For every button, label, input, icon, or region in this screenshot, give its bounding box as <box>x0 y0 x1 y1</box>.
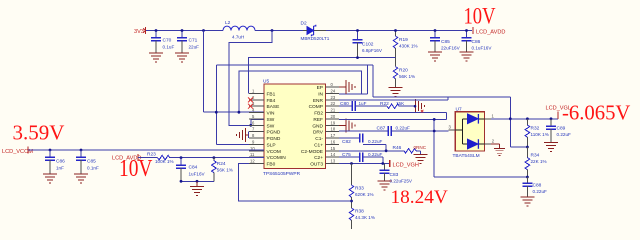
svg-text:SW: SW <box>267 117 275 123</box>
ground right of R22 <box>416 99 425 113</box>
U5 left pin numbers <box>250 89 255 164</box>
svg-text:U7: U7 <box>456 107 462 113</box>
wire C1- pin 17 <box>339 137 360 139</box>
wire OUT3 pin 13 <box>339 163 390 165</box>
port LCD_VGL <box>546 106 572 119</box>
capacitor C80 <box>340 101 367 111</box>
capacitor C82 <box>342 133 382 145</box>
svg-text:C83: C83 <box>390 172 399 178</box>
junction dots on 3V3 rail <box>155 29 468 32</box>
svg-text:0.22uF: 0.22uF <box>368 152 382 157</box>
svg-text:C86: C86 <box>472 39 481 45</box>
wire 3V3 rail right segment to LCD_AVDD <box>326 30 472 32</box>
svg-text:BASE: BASE <box>267 104 280 110</box>
dot R34 bottom / C88 <box>526 176 529 179</box>
svg-text:22uF: 22uF <box>189 45 200 50</box>
dot R32 top <box>526 117 529 120</box>
resistor R34 <box>525 147 546 177</box>
svg-text:SLP: SLP <box>267 142 276 148</box>
wire VCOMIN pin 11 left <box>138 157 158 159</box>
capacitor C85 <box>430 31 461 53</box>
U7 pin stubs and numbers <box>448 113 495 144</box>
svg-text:3V3: 3V3 <box>134 29 144 35</box>
svg-text:U5: U5 <box>263 79 269 85</box>
svg-text:DRV: DRV <box>313 130 324 136</box>
wire R46 to ground <box>416 151 420 155</box>
svg-text:C1+: C1+ <box>314 142 323 148</box>
svg-text:17: 17 <box>331 133 336 138</box>
svg-text:56K 1%: 56K 1% <box>399 74 415 79</box>
wire COMP to R22 <box>355 105 387 107</box>
resistor R32 <box>525 119 549 147</box>
ground under C85 (VCOM) <box>74 174 88 183</box>
svg-text:15K: 15K <box>396 101 405 106</box>
svg-text:PGND: PGND <box>267 130 281 136</box>
diode D2 MBRD520LT1 <box>301 21 330 42</box>
svg-text:44.3K 1%: 44.3K 1% <box>355 215 375 220</box>
svg-text:0.22uF: 0.22uF <box>396 126 410 131</box>
svg-text:C80: C80 <box>340 101 349 107</box>
capacitor C75 <box>342 152 382 162</box>
dot ground tap on bottom link <box>196 180 199 183</box>
dot at R46 tap <box>385 149 388 152</box>
resistor R33 <box>349 164 373 202</box>
svg-text:22K 1%: 22K 1% <box>531 159 547 164</box>
svg-text:TBAT54SLM: TBAT54SLM <box>453 153 480 159</box>
svg-text:VCOMIN: VCOMIN <box>267 155 287 161</box>
wire VCOM pin 10 <box>28 149 264 151</box>
svg-text:6.8pF16V: 6.8pF16V <box>362 48 383 53</box>
svg-text:1nF: 1nF <box>56 166 64 171</box>
svg-text:14: 14 <box>331 152 336 157</box>
wire C2+ pin 14 <box>339 156 360 158</box>
svg-text:C70: C70 <box>163 38 172 44</box>
resistor R46 <box>393 145 427 153</box>
dot C84 top <box>180 156 183 159</box>
svg-text:0.1uF16V: 0.1uF16V <box>472 46 493 51</box>
ground under C71 <box>175 53 189 62</box>
svg-text:R24: R24 <box>217 161 226 167</box>
svg-text:C1-: C1- <box>315 136 323 142</box>
wire C75 to OUT3 <box>363 157 383 163</box>
svg-text:FB4: FB4 <box>267 98 276 104</box>
dot OUT3/C83 <box>381 162 384 165</box>
svg-text:C84: C84 <box>189 165 198 171</box>
capacitor C84 <box>176 158 206 182</box>
svg-text:FB2: FB2 <box>314 111 323 117</box>
wire 3V3 rail left segment <box>146 30 223 32</box>
diode U7-B (bottom) <box>468 139 479 149</box>
svg-text:C89: C89 <box>557 126 566 132</box>
svg-text:1uF16V: 1uF16V <box>189 172 206 177</box>
ground under C83 <box>378 181 392 190</box>
wire C1+ pin 16 loop <box>363 144 386 150</box>
svg-text:IN: IN <box>318 92 323 98</box>
svg-text:0.1nF: 0.1nF <box>87 166 99 171</box>
capacitor C86 <box>462 31 493 53</box>
svg-text:16: 16 <box>331 139 336 144</box>
svg-text:COMP: COMP <box>309 104 323 110</box>
wire DRV pin 18 to C87 <box>339 130 388 132</box>
svg-text:0.22uF: 0.22uF <box>533 189 547 194</box>
wire REF pin 20 <box>339 118 446 120</box>
wire riser from top link down to divider <box>510 97 527 147</box>
svg-text:430K 1%: 430K 1% <box>399 44 418 49</box>
junction dots on VIN wire <box>215 56 359 127</box>
capacitor C87 <box>377 126 410 136</box>
wire VIN/SLP rail <box>216 65 373 144</box>
wire U7 pin1 / VGL sense <box>491 118 558 120</box>
svg-text:20: 20 <box>331 114 336 119</box>
svg-text:LCD_AVDD: LCD_AVDD <box>476 30 505 36</box>
port LCD_VCOM <box>2 146 33 155</box>
dot R32/R34 junction <box>526 146 529 149</box>
wire COMP pin 22 <box>339 105 352 107</box>
svg-text:R32: R32 <box>531 126 540 132</box>
port LCD_AVDD (top) <box>473 27 505 36</box>
svg-text:C2-MODE: C2-MODE <box>301 149 323 155</box>
svg-text:0.22uF: 0.22uF <box>368 139 382 144</box>
no-connect X on pin 2 <box>248 97 253 102</box>
svg-text:R38: R38 <box>355 209 364 215</box>
svg-text:GND: GND <box>312 123 323 129</box>
wire FB2 top link <box>373 65 510 97</box>
svg-text:110K 1%: 110K 1% <box>531 132 549 137</box>
svg-text:0.22uF: 0.22uF <box>557 132 571 137</box>
wire C2-MODE pin 15 <box>339 150 404 152</box>
wire FB0 pin 12 loop <box>239 164 352 202</box>
wire 3V3 riser to VIN <box>203 31 205 113</box>
ground at GND pin 19 (right) <box>339 118 355 132</box>
dot R33/R38 junction <box>350 200 353 203</box>
wire charge-pump riser to VGL rail <box>434 119 527 177</box>
ground under C85 <box>428 52 442 61</box>
svg-text:10V: 10V <box>464 3 496 30</box>
capacitor C85 (VCOM) <box>76 150 99 174</box>
capacitor C102 <box>353 31 383 58</box>
svg-text:ENR: ENR <box>313 98 324 104</box>
resistor R20 <box>393 58 415 88</box>
dot R24 top <box>213 156 216 159</box>
ground at EP pin (right) <box>339 80 355 94</box>
ground at U7 pin 2 <box>491 144 505 156</box>
ground under R20 <box>389 88 403 97</box>
svg-text:D2: D2 <box>301 21 307 27</box>
ground under C89 <box>544 143 558 152</box>
svg-text:VIN: VIN <box>267 111 276 117</box>
dot C86b <box>49 149 52 152</box>
svg-text:REF: REF <box>313 117 323 123</box>
svg-text:C71: C71 <box>189 38 198 44</box>
svg-text:R46: R46 <box>393 145 402 151</box>
svg-text:24: 24 <box>331 89 336 94</box>
ground under R46 <box>414 155 428 164</box>
ground under C88 <box>520 197 534 206</box>
wire R22 to ground <box>399 105 415 107</box>
svg-text:C87: C87 <box>377 126 386 132</box>
dot C89 top <box>550 117 553 120</box>
svg-text:56K 1%: 56K 1% <box>217 168 233 173</box>
ground under bottom link <box>190 181 204 195</box>
svg-text:SW: SW <box>267 123 275 129</box>
svg-text:R20: R20 <box>399 68 408 74</box>
svg-text:15: 15 <box>331 146 336 151</box>
svg-text:100K 1%: 100K 1% <box>155 159 174 164</box>
svg-text:TPS65105PWPR: TPS65105PWPR <box>263 171 301 177</box>
svg-text:C75: C75 <box>342 152 351 158</box>
capacitor C88 <box>522 177 547 197</box>
svg-text:R33: R33 <box>355 186 364 192</box>
capacitor C83 <box>380 164 413 184</box>
dot C85b <box>80 149 83 152</box>
U5 left pin stubs 1-12 <box>249 94 264 164</box>
dot riser crossing pin1 wire <box>509 117 512 120</box>
svg-text:21: 21 <box>331 108 336 113</box>
capacitor C86 (VCOM) <box>45 150 65 174</box>
svg-text:C102: C102 <box>362 42 374 48</box>
U5 right pin numbers <box>331 82 336 163</box>
svg-text:MBRD520LT1: MBRD520LT1 <box>301 36 330 41</box>
svg-text:R22: R22 <box>380 101 389 107</box>
dot OUT3/R33 <box>350 162 353 165</box>
port LCD_AVDD (bottom) <box>112 154 141 162</box>
wire C87 to U7 pin 3 <box>392 130 449 132</box>
svg-text:0.22uF25V: 0.22uF25V <box>390 179 413 184</box>
svg-text:L2: L2 <box>225 20 231 26</box>
svg-text:OUT3: OUT3 <box>310 162 323 168</box>
svg-text:0RNC: 0RNC <box>414 145 427 150</box>
svg-text:C86: C86 <box>56 159 65 165</box>
svg-text:C88: C88 <box>533 183 542 189</box>
svg-text:19: 19 <box>331 120 336 125</box>
svg-text:PGND: PGND <box>267 136 281 142</box>
wire IN rail <box>239 65 368 112</box>
wire FB2 pin 21 <box>339 113 446 120</box>
wire SW net: drop from rail, across, down to SW pins <box>229 31 272 126</box>
diode U7-A (top) <box>468 114 479 124</box>
ground under C86 <box>460 52 474 61</box>
svg-text:C82: C82 <box>342 139 351 145</box>
dot at R22 ground node <box>414 105 417 108</box>
wire 3V3 rail mid segment <box>255 30 307 32</box>
svg-text:C85: C85 <box>441 39 450 45</box>
transistor U7 TBAT54SLM body <box>453 107 485 160</box>
port 3V3 <box>134 27 146 35</box>
svg-text:C2+: C2+ <box>314 155 323 161</box>
svg-text:10V: 10V <box>119 154 153 182</box>
svg-text:VCOM: VCOM <box>267 149 281 155</box>
resistor R24 <box>212 158 233 182</box>
wire VIN pin wire <box>204 111 265 113</box>
svg-text:FB1: FB1 <box>267 92 276 98</box>
svg-text:11: 11 <box>250 152 255 157</box>
ground under C86 (VCOM) <box>43 174 57 183</box>
dot DRV riser top on REF wire <box>433 118 436 121</box>
svg-text:0.1uF: 0.1uF <box>163 45 175 50</box>
svg-text:22: 22 <box>331 101 336 106</box>
svg-text:3.59V: 3.59V <box>13 121 65 145</box>
resistor R23 <box>147 152 174 164</box>
svg-text:12: 12 <box>250 159 255 164</box>
svg-text:13: 13 <box>331 159 336 164</box>
capacitor C70 <box>151 31 174 54</box>
dot C84 bottom <box>180 180 183 183</box>
wire VCOMIN pin 11 right <box>170 157 264 159</box>
capacitor C71 <box>177 31 199 54</box>
svg-text:620K 1%: 620K 1% <box>355 192 374 197</box>
svg-text:23: 23 <box>331 95 336 100</box>
U5 right pin names <box>301 85 324 167</box>
wire ENR pin 23 <box>339 97 448 100</box>
svg-text:18.24V: 18.24V <box>391 187 448 208</box>
capacitor C89 <box>546 119 571 143</box>
svg-text:4.7uH: 4.7uH <box>232 35 244 40</box>
op-amp U5 body <box>263 79 326 178</box>
ground under C70 <box>149 53 163 62</box>
inductor L2 <box>223 20 255 40</box>
U5 left pin names <box>267 92 287 168</box>
svg-text:R34: R34 <box>531 153 540 159</box>
svg-text:C85: C85 <box>87 159 96 165</box>
svg-text:LCD_VGH: LCD_VGH <box>393 163 419 169</box>
resistor R22 <box>380 101 405 109</box>
wire C84/R24 bottom link <box>181 180 214 182</box>
resistor R19 <box>393 31 417 58</box>
svg-text:1uF: 1uF <box>359 101 367 106</box>
port LCD_VGH <box>390 160 419 169</box>
resistor R38 <box>349 201 375 229</box>
ground at PGND pins 7/8 (left, pointing left) <box>237 128 249 142</box>
dot DRV riser at DRV wire <box>433 130 436 133</box>
svg-text:18: 18 <box>331 127 336 132</box>
svg-text:FB0: FB0 <box>267 162 276 168</box>
svg-text:22uF16V: 22uF16V <box>441 46 461 51</box>
wire FB1 rail <box>248 58 395 94</box>
U7 internal wiring <box>455 119 484 144</box>
no-connect X on pin 3 <box>248 104 253 109</box>
svg-text:-6.065V: -6.065V <box>562 103 630 125</box>
U5 right pin stubs EP..OUT3 <box>326 87 340 163</box>
svg-text:EP: EP <box>317 85 323 91</box>
svg-text:R19: R19 <box>399 37 408 43</box>
no-ERC mark on FB2 wire <box>421 110 424 113</box>
